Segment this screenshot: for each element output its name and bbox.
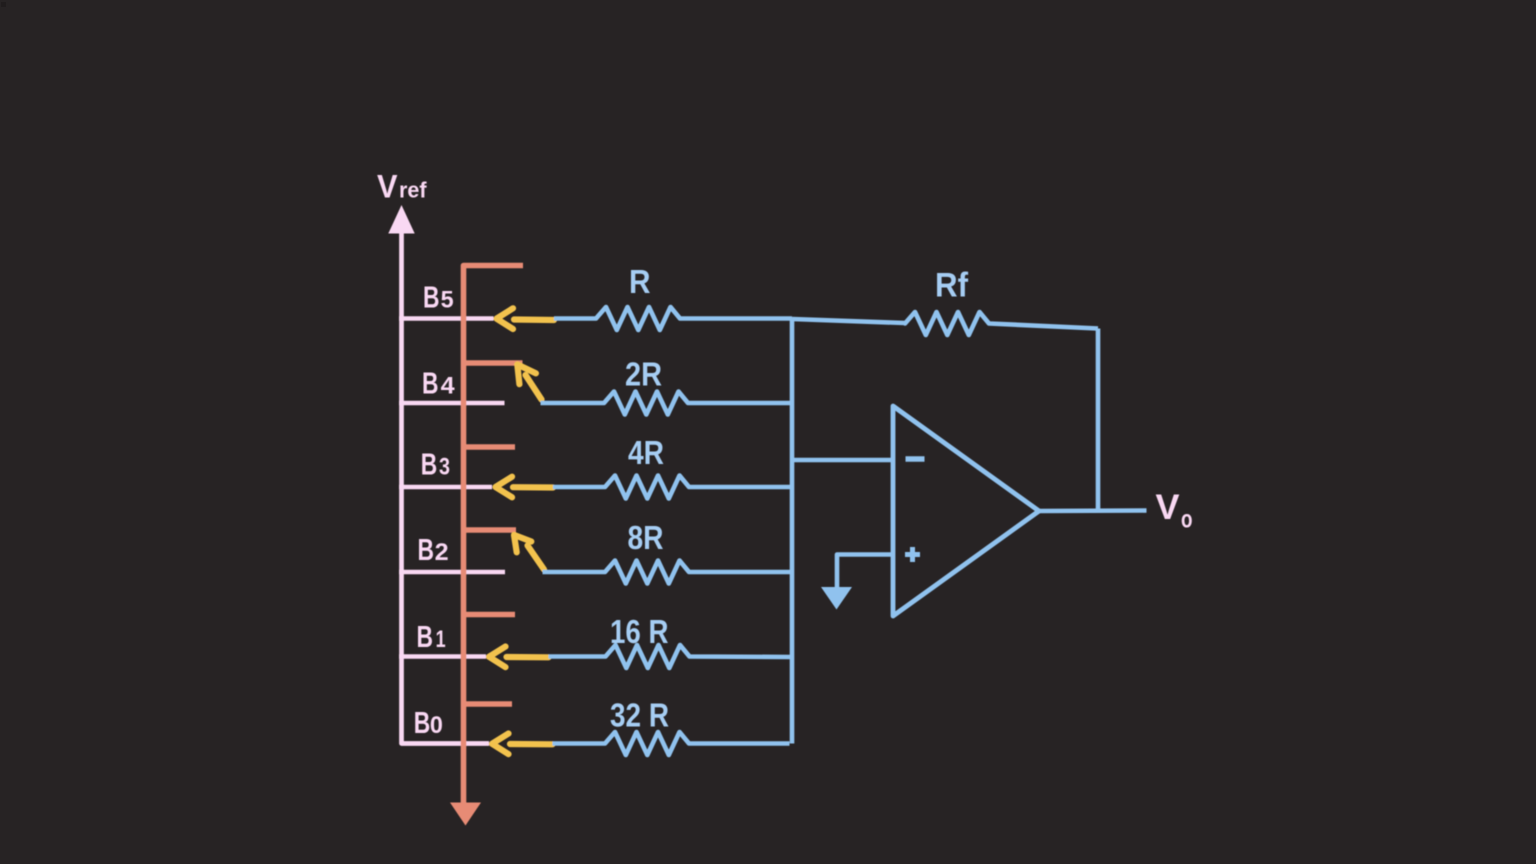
resistor R with leads (554, 307, 792, 330)
svg-text:B: B (422, 366, 439, 401)
resistor 2R with leads (541, 392, 793, 415)
node Vo label (1156, 488, 1193, 534)
svg-text:32 R: 32 R (610, 697, 669, 734)
switch arrow B5 (yellow, closed) (497, 308, 555, 329)
svg-text:B: B (423, 280, 440, 315)
svg-text:8R: 8R (628, 519, 664, 556)
svg-text:B: B (414, 705, 431, 740)
wire row B5 (pink) (399, 316, 494, 321)
stub B4 (salmon) (461, 360, 523, 365)
label B3 (421, 447, 450, 482)
svg-text:16 R: 16 R (610, 613, 669, 650)
svg-text:V: V (377, 169, 398, 205)
wire bus to inverting input (792, 458, 893, 463)
svg-text:B: B (417, 619, 434, 654)
svg-text:V: V (1156, 488, 1181, 527)
stub B2 (salmon) (461, 527, 516, 532)
wire row B2 (pink) (399, 570, 505, 575)
resistor 32R with leads (553, 732, 790, 755)
stub B3 (salmon) (461, 444, 515, 449)
summing bus vertical wire (blue) (790, 319, 795, 744)
svg-text:o: o (1181, 506, 1193, 534)
resistor Rf with leads (feedback) (792, 312, 1098, 335)
node Vref label (377, 169, 427, 205)
svg-text:4: 4 (441, 373, 456, 400)
ladder bus bottom arrowhead (salmon) (450, 803, 481, 826)
svg-text:B: B (418, 532, 435, 567)
label B1 (417, 619, 446, 654)
svg-text:ref: ref (399, 178, 427, 203)
Vref vertical wire (pink) with corner into B0 row (402, 229, 490, 744)
wire row B4 (pink) (399, 401, 505, 406)
svg-text:4R: 4R (628, 434, 664, 471)
switch arrow B3 (yellow, closed) (496, 477, 554, 498)
svg-text:2R: 2R (625, 356, 662, 393)
switch arrow B0 (yellow, closed) (492, 734, 553, 755)
op-amp U1 triangle (893, 406, 1039, 616)
resistor 8R with leads (543, 561, 793, 584)
label B5 (423, 280, 454, 315)
svg-text:0: 0 (430, 712, 443, 739)
op-amp plus symbol (905, 547, 920, 562)
switch arrow B4 (yellow, open, points to stub) (517, 364, 541, 399)
wire ground to non-inverting input (837, 555, 893, 589)
svg-text:3: 3 (439, 454, 450, 481)
svg-text:2: 2 (435, 539, 449, 566)
switch arrow B2 (yellow, open, points to stub) (514, 535, 544, 570)
output wire Vo (1039, 508, 1147, 513)
feedback vertical wire down to output (1096, 329, 1101, 511)
svg-text:Rf: Rf (935, 267, 969, 305)
stub B1 (salmon) (461, 612, 515, 617)
svg-text:B: B (421, 447, 438, 482)
label B2 (418, 532, 449, 567)
wire row B1 (pink) (399, 654, 486, 659)
resistor 4R with leads (553, 476, 792, 499)
Vref arrow (388, 205, 414, 234)
stub B0 (salmon) (461, 701, 512, 706)
label B4 (422, 366, 455, 401)
svg-text:1: 1 (436, 626, 446, 653)
ground arrow (821, 587, 852, 610)
label B0 (414, 705, 443, 740)
svg-text:5: 5 (441, 287, 454, 314)
resistor 16R with leads (549, 645, 793, 668)
op-amp minus symbol (906, 456, 925, 462)
ladder bus vertical with top bar (salmon) (464, 266, 524, 804)
svg-text:R: R (629, 263, 651, 300)
switch arrow B1 (yellow, closed) (489, 647, 549, 668)
wire row B3 (pink) (399, 485, 492, 490)
